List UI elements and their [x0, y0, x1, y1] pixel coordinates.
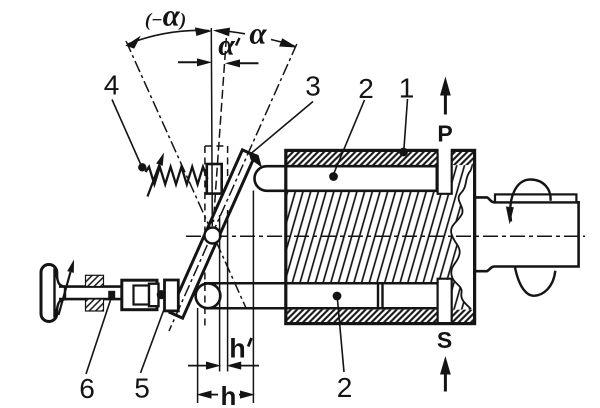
node alpha-prime tilted line [213, 38, 226, 222]
piston 2 top (stadium shape) [255, 166, 437, 191]
leader for 3 [251, 102, 313, 154]
rotation arrow bottom arc [515, 268, 555, 296]
bottom piston right face lines [377, 283, 379, 308]
pivot bearing circle [205, 228, 221, 244]
svg-text:3: 3 [305, 71, 321, 102]
piston 2 bottom ball end [196, 283, 221, 308]
spring retainer [207, 164, 222, 194]
svg-text:2: 2 [358, 73, 374, 104]
svg-text:h: h [221, 381, 237, 408]
leader for 6 [86, 297, 112, 374]
bottom piston top edge [204, 282, 438, 285]
P port channel [437, 150, 453, 194]
dot for 1 [399, 148, 408, 157]
svg-text:5: 5 [134, 373, 150, 404]
leader for 1 [404, 99, 408, 148]
spring motion arrow [148, 165, 160, 197]
dimension arc for alpha [215, 28, 296, 47]
rotation arrow head [506, 207, 514, 225]
rod end cap [149, 284, 159, 307]
break line (jagged) [451, 170, 471, 309]
handle knob 6 [41, 265, 57, 322]
rotation arrow top arc [510, 179, 550, 221]
dot for 2 bottom [333, 292, 342, 301]
svg-text:6: 6 [79, 373, 95, 404]
clevis outer housing 5 [122, 280, 157, 310]
P arrow [440, 77, 451, 115]
svg-text:4: 4 [104, 70, 120, 101]
leader for 2 bottom [338, 300, 345, 372]
cylinder block top wall hatched (right of P port) [452, 152, 475, 165]
handle knob cone [55, 269, 66, 318]
svg-text:α: α [249, 16, 267, 51]
node (-alpha) dash-dot line [126, 41, 246, 308]
bearing block bottom hatched [86, 299, 104, 311]
cylinder block center body hatched [286, 191, 471, 284]
cylinder block top wall hatched (left of P port) [286, 152, 438, 165]
node pivot axis vertical reference line [211, 28, 212, 226]
extension line at top piston face [252, 191, 254, 404]
contact blob plate/piston [249, 152, 263, 168]
S arrow [440, 356, 451, 392]
dashed neutral-position rectangle [205, 146, 228, 330]
dimension arc for (-alpha) [127, 28, 211, 48]
bottom piston white band [208, 283, 438, 308]
bottom cylinder bore white [287, 284, 452, 307]
cylinder block bottom wall hatched (left of S port) [286, 310, 438, 323]
svg-text:α: α [218, 29, 235, 62]
shaft key strip [495, 194, 576, 202]
leader for 4 [112, 100, 141, 166]
svg-text:1: 1 [399, 73, 415, 104]
dimension arrows for alpha-prime [178, 59, 259, 67]
dimension h [198, 391, 253, 398]
bearing block top hatched [86, 275, 104, 286]
svg-text:h: h [229, 334, 246, 364]
piston 2 top right face [436, 166, 438, 191]
dimension h-prime [188, 362, 259, 369]
bottom piston bottom edge [204, 307, 438, 310]
slipper pad [165, 280, 179, 311]
leader for 2 top [334, 100, 365, 173]
adjusting rod [59, 285, 123, 288]
top cylinder bore white [287, 168, 452, 190]
cylinder block bottom wall hatched (right of S port) [452, 310, 475, 323]
dot for 2 top [329, 172, 338, 181]
extension line h-prime right [227, 210, 229, 372]
swashplate 3 (tilted) [170, 150, 255, 318]
spring 4 zigzag [146, 167, 208, 185]
pin on rod [108, 291, 115, 299]
extension line h-prime left [219, 215, 221, 372]
spring anchor dot [138, 163, 146, 171]
svg-text:S: S [437, 327, 452, 353]
shaft with flange [475, 197, 579, 271]
S port channel [437, 279, 453, 324]
svg-text:2: 2 [337, 372, 353, 403]
svg-text:P: P [437, 120, 452, 146]
P port opening gap in outer edge [439, 148, 451, 153]
cylinder block right wall hatched [452, 165, 475, 309]
cylinder block 1 outer border [286, 150, 475, 323]
handle motion arrow [59, 272, 71, 315]
leader for 5 [141, 308, 165, 373]
node swashplate axis (alpha) dash-dot line [169, 44, 297, 331]
clevis inner slot [134, 286, 150, 305]
node main horizontal centerline [186, 235, 585, 237]
ball joint (black) [157, 290, 166, 299]
extension line at ball contact [197, 308, 199, 403]
broken-out section white pocket [451, 170, 475, 311]
